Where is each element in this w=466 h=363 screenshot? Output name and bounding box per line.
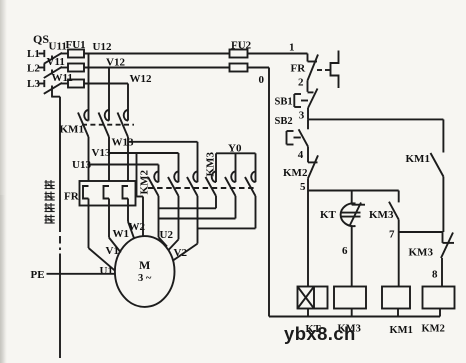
relay FR label: [291, 63, 307, 75]
svg-text:W1: W1: [113, 228, 130, 240]
coil KM2 stub: [439, 309, 441, 317]
wire PE: [47, 273, 116, 275]
svg-text:KM1: KM1: [406, 153, 430, 165]
svg-text:3: 3: [299, 110, 305, 122]
svg-text:KM1: KM1: [60, 124, 84, 136]
fuse FU2 pole2: [230, 64, 248, 72]
coil KM2: [423, 287, 455, 309]
terminal L2: [27, 63, 44, 75]
contactor KM2 label: [139, 170, 151, 195]
wire U12 bus: [84, 53, 230, 55]
coil KT stub: [307, 309, 309, 317]
node 0 label: [259, 74, 265, 86]
relay FR NC contact: [308, 55, 319, 92]
button SB2 label: [275, 116, 293, 127]
node 5 label: [300, 181, 306, 193]
wire KM2 pole3 drop: [173, 196, 198, 261]
coil KM3 label: [338, 324, 361, 335]
node 1 label: [289, 42, 295, 54]
svg-text:U11: U11: [49, 41, 67, 53]
svg-text:KM2: KM2: [139, 170, 151, 195]
button SB1 NC: [294, 89, 317, 109]
contactor KM3 NC interlock: [441, 232, 454, 287]
contactor KM3 main contact pole3: [245, 172, 256, 197]
contactor KM3 main contact pole1: [206, 172, 217, 197]
wire V-phase drop: [108, 68, 110, 111]
coil KM3: [334, 287, 366, 309]
wire bus1 to FU2: [248, 53, 308, 55]
svg-text:2: 2: [298, 77, 304, 89]
fuse FU2 label: [231, 40, 252, 52]
equipment boundary line 设备界线: [59, 97, 61, 358]
KM3 NO label: [369, 209, 394, 221]
wire KM2 pole1 to U2: [159, 196, 168, 247]
svg-text:KM3: KM3: [205, 152, 217, 177]
wire rail to node3: [307, 108, 309, 119]
wire node7 link: [399, 231, 443, 233]
coil KM3 stub: [351, 309, 353, 317]
wire W13 tap: [128, 142, 198, 172]
svg-text:V12: V12: [106, 57, 125, 69]
svg-text:KT: KT: [320, 209, 337, 221]
switch QS blade pole3: [44, 83, 62, 94]
motor M circle: [115, 236, 175, 307]
wire U13 tap: [89, 165, 159, 172]
svg-text:L3: L3: [27, 78, 40, 90]
switch QS blade pole1: [44, 53, 62, 64]
KM1 NO label: [406, 153, 430, 165]
fuse FU2 pole1: [230, 50, 248, 58]
KM1 linkage dashed: [82, 124, 134, 126]
wire node1 corner: [307, 54, 309, 62]
button SB2 NO: [287, 119, 309, 146]
coil KM2 label: [422, 324, 445, 335]
svg-text:KM2: KM2: [283, 167, 308, 179]
contactor KM1 label: [60, 124, 84, 136]
contactor KM2 main contact pole1: [148, 172, 159, 197]
svg-text:M: M: [139, 258, 150, 272]
label V1: [106, 245, 119, 257]
thermal relay FR label: [64, 191, 80, 203]
svg-text:6: 6: [342, 245, 348, 257]
svg-text:U13: U13: [72, 159, 91, 171]
label W11: [52, 72, 73, 84]
wire U-phase drop: [88, 54, 90, 111]
coil KM1: [382, 287, 410, 309]
svg-text:0: 0: [259, 74, 265, 86]
wire 0 rail: [248, 68, 270, 317]
label U2: [160, 229, 174, 241]
KM3 NC label: [409, 247, 434, 259]
wire KM3 pole1 drop: [215, 196, 217, 208]
wire KM2 pole2 to V2: [168, 196, 179, 251]
motor label M: [139, 258, 150, 272]
svg-text:W13: W13: [112, 137, 135, 149]
svg-text:4: 4: [298, 149, 304, 161]
wire W1 supply: [128, 199, 134, 239]
fuse FU1 pole3: [68, 80, 84, 88]
wire W12 bus: [84, 83, 128, 85]
contactor KM3 main contact pole2: [225, 172, 236, 197]
svg-text:KM3: KM3: [409, 247, 434, 259]
boundary text 设备界线: [45, 180, 55, 224]
label V13: [92, 147, 111, 159]
svg-text:V1: V1: [106, 245, 119, 257]
timer KT contact: [341, 191, 365, 227]
svg-text:FR: FR: [291, 63, 307, 75]
terminal L1: [27, 48, 44, 60]
contactor KM1 NO aux: [431, 119, 444, 232]
svg-text:PE: PE: [31, 269, 45, 281]
svg-text:W12: W12: [130, 73, 153, 85]
wire rail to KT coil: [307, 191, 309, 287]
ground PE label: [31, 269, 45, 281]
wire V12 bus: [84, 67, 230, 69]
wire V13 tap: [109, 153, 179, 172]
wire KM3 pole2 drop: [235, 196, 237, 219]
svg-text:3 ~: 3 ~: [138, 273, 152, 284]
label W2: [129, 221, 146, 233]
wire L1 to FU1: [61, 53, 68, 55]
wire W-phase drop: [127, 84, 129, 111]
wire W2 branch: [137, 153, 144, 236]
label U13: [72, 159, 91, 171]
contactor KM2 main contact pole3: [187, 172, 198, 197]
node 8 label: [432, 269, 438, 281]
fuse FU1 pole1: [68, 50, 84, 58]
label V2: [174, 247, 188, 259]
button SB1 label: [275, 97, 293, 108]
fuse FU1 pole2: [68, 64, 84, 72]
svg-text:FR: FR: [64, 191, 80, 203]
wire L3 to FU1: [61, 83, 68, 85]
contactor KM3 NO aux: [389, 191, 399, 233]
FR heater symbol: [317, 51, 339, 89]
contactor KM1 main contact pole1: [78, 110, 89, 181]
svg-text:SB2: SB2: [275, 116, 293, 127]
label U11: [49, 41, 67, 53]
coil KM1 stub: [397, 309, 399, 317]
thermal relay FR box: [80, 181, 136, 206]
wire node U2 link: [159, 218, 236, 220]
wire KT to KM3 coil: [351, 226, 353, 287]
node 2 label: [298, 77, 304, 89]
scan edge shading: [0, 0, 7, 363]
contactor KM2 NC interlock: [308, 147, 318, 191]
svg-text:QS: QS: [33, 32, 49, 46]
coil KT: [298, 287, 328, 309]
svg-text:L1: L1: [27, 48, 40, 60]
wire KM3 pole3 drop: [255, 196, 257, 228]
contactor KM3 label: [205, 152, 217, 177]
node 7 label: [389, 229, 395, 241]
contactor KM1 main contact pole2: [99, 110, 110, 181]
svg-text:U1: U1: [100, 265, 113, 277]
KM2 KM3 linkage dashed: [148, 187, 257, 189]
node 6 label: [342, 245, 348, 257]
svg-text:KM1: KM1: [390, 325, 413, 336]
wire Y0 star bar: [216, 153, 256, 171]
FR heater element pole2: [104, 186, 110, 199]
wire bottom rail: [269, 316, 440, 318]
wire node7 to KM1 coil: [398, 232, 400, 287]
watermark ybx8.ch: [284, 323, 356, 344]
switch QS linkage dashed: [52, 56, 60, 98]
FR heater element pole1: [83, 186, 89, 199]
node 4 label: [298, 149, 304, 161]
terminal L3: [27, 78, 44, 90]
svg-text:1: 1: [289, 42, 295, 54]
svg-text:U12: U12: [93, 41, 112, 53]
node 3 label: [299, 110, 305, 122]
FR heater element pole3: [123, 186, 129, 199]
svg-text:KM3: KM3: [369, 209, 394, 221]
svg-text:V13: V13: [92, 147, 111, 159]
KM2 NC label: [283, 167, 308, 179]
coil KT label: [306, 324, 321, 335]
label W13: [112, 137, 135, 149]
switch QS label: [33, 32, 49, 46]
svg-text:V11: V11: [47, 56, 65, 68]
label W1: [113, 228, 130, 240]
svg-text:L2: L2: [27, 63, 40, 75]
wire V1 supply: [109, 199, 121, 253]
timer KT label: [320, 209, 337, 221]
wire L2 to FU1: [61, 67, 68, 69]
label U1: [100, 265, 113, 277]
wire node5 branch: [308, 190, 399, 192]
node Y0 label: [228, 143, 242, 155]
label U12: [93, 41, 112, 53]
wire U1 supply: [89, 186, 116, 271]
wire node W2-U2 link: [159, 207, 217, 209]
svg-text:KM2: KM2: [422, 324, 445, 335]
svg-text:SB1: SB1: [275, 97, 293, 108]
contactor KM2 main contact pole2: [168, 172, 179, 197]
svg-text:8: 8: [432, 269, 438, 281]
label V11: [47, 56, 65, 68]
wire node3 branch: [308, 118, 443, 120]
wire node V2 link: [198, 227, 256, 229]
motor label 3~: [138, 273, 152, 284]
contactor KM1 main contact pole3: [118, 110, 129, 181]
svg-text:W11: W11: [52, 72, 73, 84]
svg-text:ybx8.ch: ybx8.ch: [284, 323, 356, 344]
svg-text:5: 5: [300, 181, 306, 193]
label W12: [130, 73, 153, 85]
svg-text:7: 7: [389, 229, 395, 241]
fuse FU1 label: [66, 39, 86, 51]
coil KM1 label: [390, 325, 413, 336]
switch QS blade pole2: [44, 67, 62, 78]
label V12: [106, 57, 125, 69]
